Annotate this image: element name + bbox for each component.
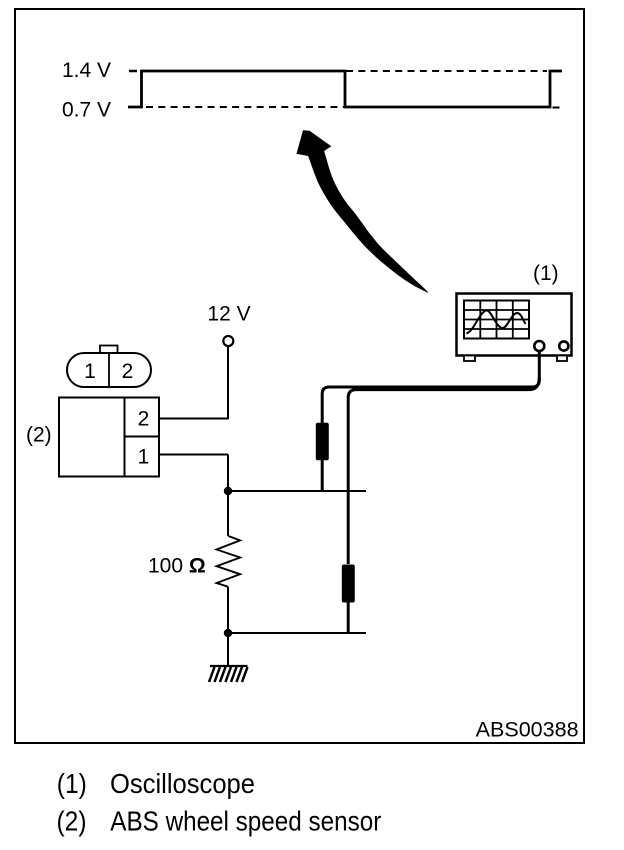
- svg-text:(1): (1): [533, 262, 559, 285]
- 12 V supply terminal: [223, 336, 233, 346]
- svg-text:(1): (1): [57, 768, 87, 799]
- resistor 100 ohm: [217, 536, 241, 587]
- junction node B: [224, 629, 232, 637]
- svg-text:1: 1: [138, 445, 150, 468]
- wire node B to ground: [227, 633, 229, 666]
- svg-text:2: 2: [138, 408, 150, 431]
- junction node A: [224, 487, 232, 495]
- svg-text:1: 1: [84, 360, 96, 383]
- oscilloscope knob / probe jack: [534, 341, 544, 351]
- ABS wheel speed sensor block (2): [59, 398, 159, 477]
- dashed reference line 0.7 V: [146, 106, 345, 108]
- probe 2 lead wire: [347, 601, 350, 633]
- svg-text:ABS00388: ABS00388: [476, 718, 579, 741]
- wire pin 1 stub: [159, 454, 228, 456]
- svg-text:(2): (2): [26, 423, 52, 446]
- tick at 1.4 V level: [129, 70, 137, 73]
- wire node A horizontal: [228, 490, 366, 492]
- wire 12 V terminal to pin 2 node: [227, 347, 229, 419]
- tick at 0.7 V level right: [553, 107, 560, 109]
- wire pin 1 down to node A: [227, 455, 229, 492]
- wire node A to resistor: [227, 491, 229, 536]
- waveform trace: [128, 71, 562, 107]
- connector face view pin cavity 1 and 2: [67, 346, 151, 388]
- svg-text:ABS wheel speed sensor: ABS wheel speed sensor: [110, 806, 381, 837]
- probe 1 body: [316, 423, 329, 461]
- svg-text:0.7 V: 0.7 V: [62, 99, 111, 122]
- probe cable 1 from oscilloscope jack: [322, 350, 539, 424]
- wire resistor to node B: [227, 587, 229, 633]
- svg-text:Oscilloscope: Oscilloscope: [110, 768, 255, 799]
- oscilloscope screen: [464, 301, 529, 339]
- border frame: [15, 9, 584, 743]
- svg-text:2: 2: [122, 360, 134, 383]
- svg-text:(2): (2): [57, 806, 87, 837]
- svg-text:100 Ω: 100 Ω: [148, 555, 206, 578]
- oscilloscope knob 2: [559, 341, 568, 350]
- arrow from probe signal to waveform: [297, 130, 429, 292]
- oscilloscope U1 body: [457, 294, 572, 356]
- caption (1) Oscilloscope: [57, 768, 255, 799]
- dashed reference line 1.4 V: [346, 70, 547, 72]
- wire node B horizontal: [228, 632, 366, 634]
- oscilloscope screen trace: [467, 310, 526, 333]
- oscilloscope foot left: [464, 356, 475, 362]
- probe cable 2 from oscilloscope jack: [348, 377, 539, 564]
- ground: [209, 666, 248, 682]
- oscilloscope foot right: [557, 356, 567, 362]
- oscilloscope screen grid: [464, 301, 529, 339]
- wire pin 2 to 12 V wire: [159, 418, 229, 420]
- caption (2) ABS wheel speed sensor: [57, 806, 382, 837]
- probe 2 body: [342, 565, 355, 603]
- probe 1 lead wire: [321, 459, 324, 491]
- svg-text:12 V: 12 V: [207, 303, 250, 326]
- svg-text:1.4 V: 1.4 V: [62, 59, 111, 82]
